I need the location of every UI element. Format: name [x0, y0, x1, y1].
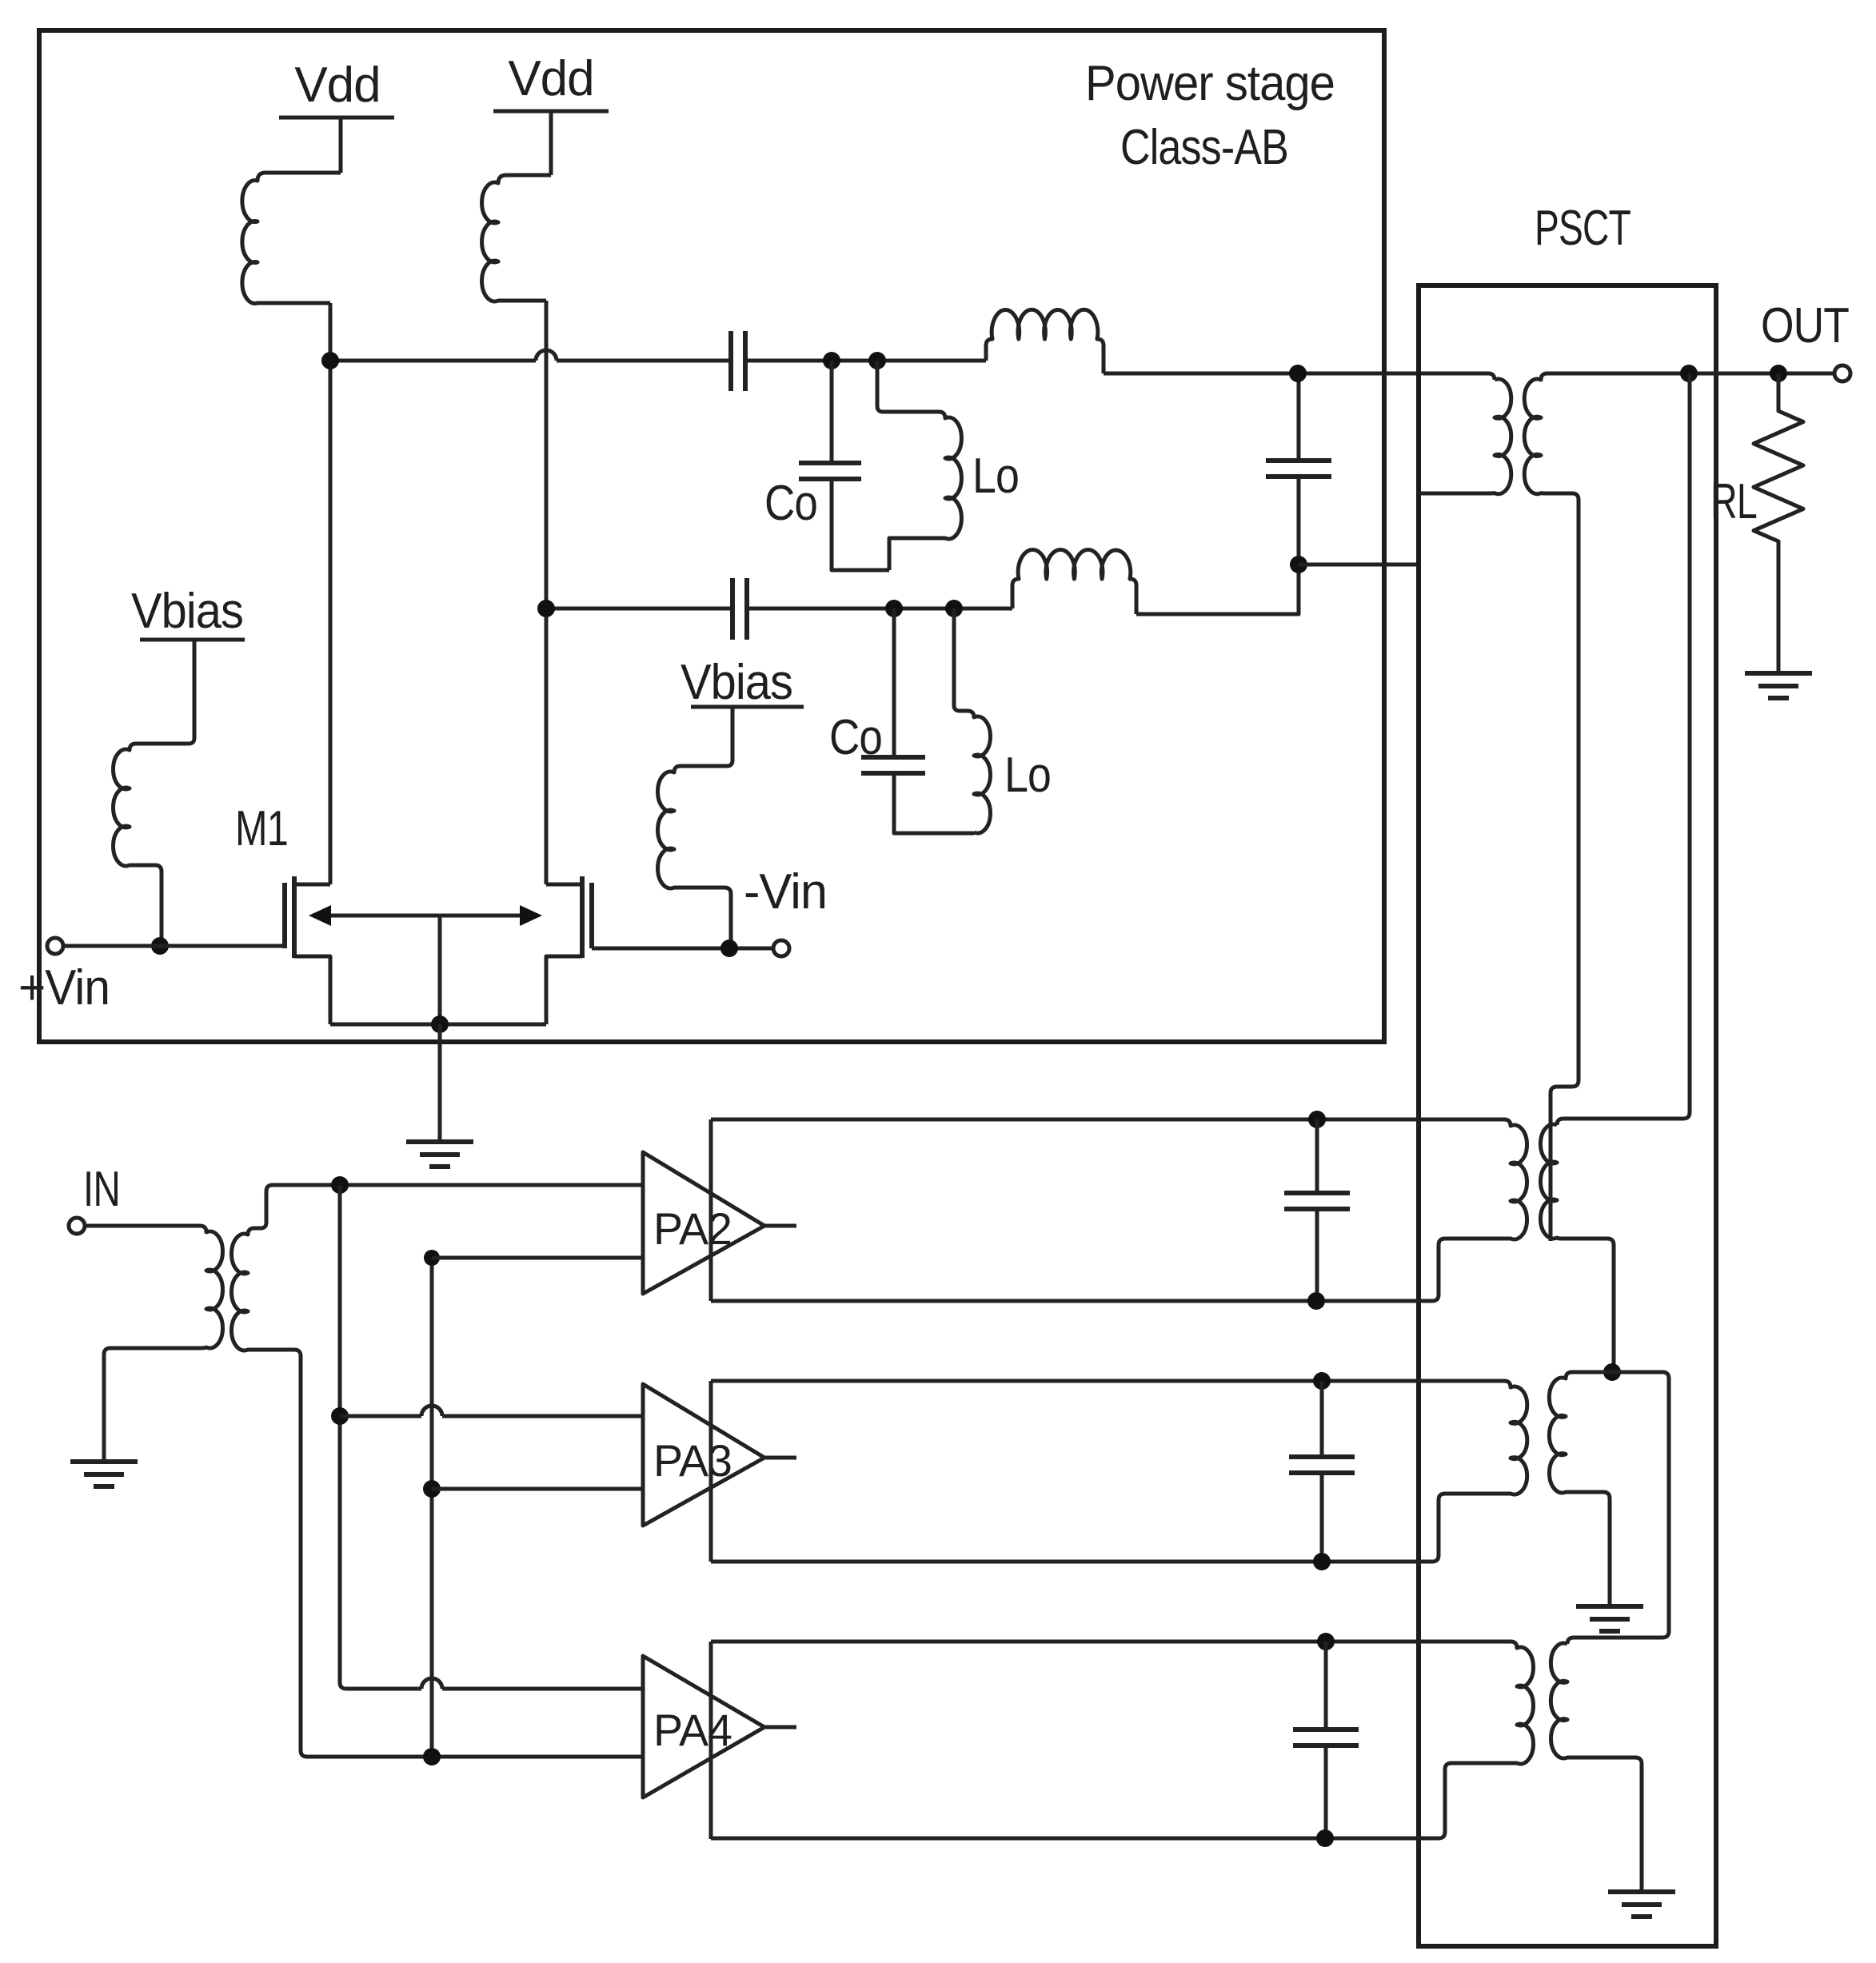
wire lower right segment — [1136, 565, 1299, 614]
PA2 loop box + transformer T2 left winding — [709, 1119, 713, 1301]
transformer T3 right winding — [1549, 1372, 1612, 1606]
wire -Vin gate — [592, 947, 773, 951]
svg-text:PA4: PA4 — [653, 1705, 732, 1755]
capacitor Co (upper) — [830, 361, 834, 461]
capacitor Co (lower) — [892, 608, 896, 755]
svg-text:Co: Co — [829, 710, 882, 765]
node +Vin gate — [151, 937, 169, 955]
capacitor coupling lower — [730, 578, 735, 640]
wire OUT bus down to T2 — [1557, 373, 1690, 1125]
svg-text:-Vin: -Vin — [744, 864, 827, 920]
node T2/T3 junction — [1603, 1363, 1621, 1381]
svg-text:+Vin: +Vin — [18, 960, 110, 1015]
transformer TIN primary — [85, 1226, 222, 1462]
inductor L2 (drain choke of M1 right) — [482, 175, 551, 301]
capacitor PA4 feedback — [1317, 1633, 1335, 1650]
output balance capacitor — [1297, 373, 1301, 458]
inductor Lo (upper series) — [986, 309, 1104, 373]
port -Vin — [773, 940, 789, 956]
svg-text:Power stage: Power stage — [1085, 56, 1335, 111]
ground (T3) — [1576, 1604, 1643, 1609]
inductor Lo (lower shunt) — [954, 608, 990, 833]
node input bus top — [331, 1176, 349, 1194]
inductor Lo (lower series) — [1012, 550, 1136, 614]
wire lower rail to PSCT — [1299, 563, 1419, 567]
wire — [745, 359, 986, 363]
transformer T1 right winding — [1524, 373, 1834, 1241]
wire hop PA4+ over bus2 — [421, 1678, 442, 1689]
wire PA2- line — [432, 1256, 643, 1260]
wire T3 node to T4 feed — [1567, 1372, 1669, 1644]
resistor RL — [1754, 373, 1803, 673]
wire lower output rail — [546, 607, 732, 611]
wire PA3- line — [432, 1487, 643, 1491]
svg-text:Vdd: Vdd — [294, 58, 380, 113]
transformer T2 right winding — [1540, 1124, 1614, 1372]
ground (sources) — [406, 1139, 473, 1144]
port OUT — [1834, 365, 1850, 381]
ground (T4) — [1608, 1889, 1675, 1894]
transistor M1 (right device) — [589, 883, 594, 948]
transformer T4 right winding — [1551, 1643, 1642, 1892]
svg-text:M1: M1 — [235, 801, 288, 856]
svg-text:Vbias: Vbias — [681, 655, 792, 710]
power stage box — [39, 30, 1384, 1042]
wire upper output rail — [330, 359, 536, 363]
svg-text:IN: IN — [83, 1162, 120, 1217]
transistor M1 (left device) — [282, 883, 287, 948]
svg-text:RL: RL — [1710, 474, 1757, 529]
node Lo lower tap — [945, 600, 963, 617]
op-amp PA3 — [643, 1384, 764, 1526]
wire upper rail right segment A — [1104, 373, 1495, 380]
transformer T1 left winding — [1419, 379, 1511, 494]
inductor gate bias right — [658, 707, 732, 948]
svg-text:Lo: Lo — [1004, 748, 1051, 803]
op-amp PA2 — [643, 1152, 764, 1294]
svg-text:PSCT: PSCT — [1535, 201, 1631, 256]
node OUT rail RL — [1770, 365, 1787, 382]
node Co lower tap — [885, 600, 903, 617]
capacitor PA2 feedback — [1308, 1111, 1326, 1128]
wire PA3+ line — [340, 1414, 421, 1418]
svg-text:Vbias: Vbias — [131, 584, 243, 639]
node PA3+ tap — [331, 1407, 349, 1425]
svg-text:OUT: OUT — [1761, 298, 1849, 353]
ground (TIN primary) — [70, 1459, 138, 1464]
svg-text:Vdd: Vdd — [508, 51, 593, 106]
wire drain2 vertical — [545, 301, 549, 884]
node Lo upper tap — [868, 352, 886, 369]
svg-text:Class-AB: Class-AB — [1120, 120, 1288, 175]
wire source join — [330, 1023, 546, 1027]
wire body line with arrows — [318, 914, 533, 918]
op-amp PA4 — [643, 1656, 764, 1797]
port +Vin — [47, 938, 63, 954]
PA3 loop box + transformer T3 left winding — [709, 1381, 713, 1562]
transformer TIN secondary — [232, 1223, 643, 1757]
wire body to source tie — [438, 916, 442, 1024]
svg-text:Co: Co — [764, 476, 817, 531]
PSCT box — [1419, 285, 1716, 1946]
inductor gate bias left — [114, 640, 194, 946]
svg-text:Lo: Lo — [972, 449, 1019, 504]
wire drain1 vertical — [329, 303, 333, 884]
capacitor PA3 feedback — [1313, 1372, 1331, 1390]
wire source to ground — [438, 1024, 442, 1142]
wire input bus 1 — [340, 1185, 421, 1689]
ground (RL) — [1745, 671, 1812, 676]
wire hop over drain2 — [536, 350, 557, 361]
node PA3- tap — [423, 1480, 441, 1498]
wire input bus 2 — [430, 1258, 434, 1757]
node OUT rail T2 feed — [1680, 365, 1698, 382]
svg-text:PA2: PA2 — [653, 1203, 732, 1254]
node Co upper tap — [823, 352, 840, 369]
node drain1/rail — [321, 352, 339, 369]
inductor Lo (upper shunt) — [877, 361, 961, 570]
node PA4- tap — [423, 1748, 441, 1766]
wire hop PA3+ over bus2 — [421, 1406, 442, 1416]
inductor L1 (drain choke of M1 left) — [242, 173, 341, 304]
capacitor coupling upper — [728, 331, 733, 391]
svg-text:PA3: PA3 — [653, 1435, 732, 1486]
PA4 loop box + transformer T4 left winding — [709, 1642, 713, 1839]
